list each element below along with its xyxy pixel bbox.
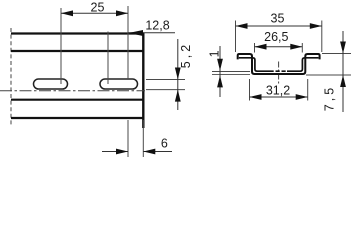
svg-text:12,8: 12,8 [145, 19, 169, 33]
svg-text:26,5: 26,5 [264, 30, 288, 44]
svg-text:6: 6 [161, 137, 168, 151]
svg-text:25: 25 [91, 0, 105, 14]
svg-text:5,2: 5,2 [179, 42, 193, 68]
svg-text:7,5: 7,5 [323, 85, 337, 111]
svg-text:1: 1 [208, 50, 222, 57]
svg-text:35: 35 [271, 12, 285, 26]
svg-text:31,2: 31,2 [266, 84, 290, 98]
